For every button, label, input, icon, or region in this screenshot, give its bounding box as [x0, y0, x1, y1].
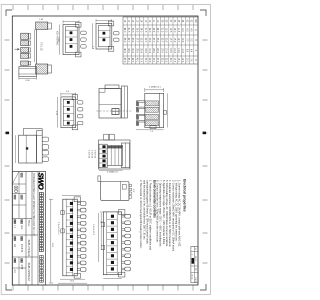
- svg-text:43.9: 43.9: [127, 48, 129, 53]
- svg-text:DONGGUAN SWO ELECTRONICS TECHN: DONGGUAN SWO ELECTRONICS TECHNOLOGY CO.,…: [32, 173, 35, 236]
- svg-text:Electrical properties: Electrical properties: [182, 179, 186, 212]
- wire line from H1 to H2: [36, 30, 38, 65]
- svg-text:32.6: 32.6: [148, 58, 150, 63]
- V-D(4pin) dimension lines: [61, 93, 76, 95]
- svg-text:26.5: 26.5: [152, 28, 154, 33]
- svg-text:35.1: 35.1: [144, 58, 146, 63]
- margin tick marks left edge: [192, 5, 194, 10]
- section view 2: outer outline: [99, 140, 131, 169]
- svg-text:2. The material UL 94V-0 rated: 2. The material UL 94V-0 rated nylon 66 …: [139, 180, 142, 249]
- svg-text:XHB: XHB: [20, 265, 22, 270]
- svg-text:0.8±0.05: 0.8±0.05: [93, 150, 95, 159]
- svg-text:15.2: 15.2: [173, 38, 175, 43]
- CONN2: end ears: [119, 210, 125, 215]
- centering arrows on margins: [203, 132, 206, 135]
- svg-text:42.6: 42.6: [131, 58, 133, 63]
- connector front view V-B(3pin): body: [63, 25, 79, 55]
- svg-text:40.1: 40.1: [135, 58, 137, 63]
- V-C(2pin) dimension lines: [96, 19, 112, 21]
- connector front view V-C(2pin): body: [96, 23, 112, 49]
- section view bottom boss: [150, 126, 156, 129]
- V-C(2pin) solder stubs: [114, 32, 120, 35]
- dimension table: [123, 17, 198, 64]
- svg-text:1.6±0.05: 1.6±0.05: [90, 150, 92, 159]
- svg-text:22.6: 22.6: [165, 58, 167, 63]
- CONN2: inner walls: [116, 212, 118, 275]
- vertical-entry connector: left step: [23, 129, 42, 136]
- svg-text:28.9: 28.9: [152, 48, 154, 53]
- dim line right of housing: [19, 78, 37, 80]
- svg-text:37.7: 37.7: [135, 38, 137, 43]
- svg-text:17.6: 17.6: [173, 58, 175, 63]
- svg-text:18.9: 18.9: [169, 48, 171, 53]
- drawing frame border: [12, 16, 198, 285]
- section view top dim line: [166, 93, 168, 127]
- CONN1: latch bump: [61, 229, 64, 233]
- title block columns: [12, 217, 32, 219]
- V-B(3pin) solder stubs: [81, 31, 87, 34]
- svg-text:36.5: 36.5: [135, 28, 137, 33]
- svg-text:42.7: 42.7: [127, 38, 129, 43]
- svg-text:22.7: 22.7: [160, 38, 162, 43]
- svg-text:2.5×10=25.0: 2.5×10=25.0: [57, 222, 60, 235]
- housing side view: body outline: [99, 89, 121, 119]
- svg-text:DESC: DESC: [194, 256, 196, 262]
- section view 2: dark insert strip: [108, 146, 123, 148]
- svg-text:46.4: 46.4: [123, 48, 125, 53]
- rotated landscape sheet: [1, 5, 210, 295]
- svg-text:XHB-2.54mm: XHB-2.54mm: [27, 240, 31, 257]
- company name CJK: [39, 193, 43, 197]
- svg-text:10.1: 10.1: [185, 58, 187, 63]
- svg-text:29.0: 29.0: [148, 28, 150, 33]
- svg-text:21.4: 21.4: [165, 48, 167, 53]
- CONN2 right dim: [103, 277, 121, 279]
- svg-text:17.7: 17.7: [169, 38, 171, 43]
- svg-text:13.9: 13.9: [177, 48, 179, 53]
- title block rows: [37, 172, 39, 286]
- vertical-entry connector: center pin dot: [26, 147, 28, 149]
- svg-text:20.1: 20.1: [169, 58, 171, 63]
- svg-text:21.5: 21.5: [160, 28, 162, 33]
- arrow pointing to terminal 3: [15, 48, 20, 50]
- diagonal cell: [12, 172, 19, 185]
- svg-text:12.7: 12.7: [177, 38, 179, 43]
- section view 2: center block: [107, 145, 122, 165]
- CONN1 left dim: [62, 194, 81, 196]
- svg-text:41.5: 41.5: [127, 28, 129, 33]
- svg-text:26.4: 26.4: [156, 48, 158, 53]
- section view top rail: [158, 93, 160, 127]
- svg-text:Environmental contrdls: Environmental contrdls: [152, 180, 156, 218]
- svg-text:12.6: 12.6: [181, 58, 183, 63]
- section view 2: dim right: [99, 169, 123, 171]
- housing side view: centerline: [96, 110, 132, 112]
- revision table: [191, 247, 198, 283]
- svg-text:31.5: 31.5: [144, 28, 146, 33]
- svg-text:2018.06: 2018.06: [20, 244, 22, 253]
- svg-text:33.9: 33.9: [144, 48, 146, 53]
- title block outline: [12, 172, 45, 286]
- vertical-entry connector: inner line: [25, 135, 27, 163]
- svg-text:44.0: 44.0: [123, 28, 125, 33]
- V-C(2pin) ears: [108, 21, 114, 26]
- svg-text:35.2: 35.2: [140, 38, 142, 43]
- V-D(4pin) solder stubs: [77, 101, 83, 104]
- housing side view: step notch: [104, 89, 106, 93]
- V-B(3pin) inner cavity: [65, 27, 77, 53]
- CONN2: contact pins: [111, 215, 114, 218]
- section view hatched contact bands: [145, 101, 158, 106]
- svg-text:47.6: 47.6: [123, 58, 125, 63]
- corner trim marks: [200, 10, 206, 16]
- svg-text:45.2: 45.2: [123, 38, 125, 43]
- svg-text:39.0: 39.0: [131, 28, 133, 33]
- housing rear view below H2: [19, 67, 37, 77]
- CONN2: latch bump: [101, 223, 104, 227]
- section view body: [145, 93, 164, 127]
- svg-text:11.4: 11.4: [181, 48, 183, 53]
- svg-text:8.9MAX±0.1: 8.9MAX±0.1: [107, 170, 119, 173]
- svg-text:P.D.1.25: P.D.1.25: [40, 42, 42, 51]
- V-D(4pin) contact pins: [67, 101, 70, 104]
- housing side view: contact window: [112, 109, 119, 115]
- header top view: inner line: [120, 182, 122, 201]
- drawing number: [21, 259, 23, 261]
- V-D(4pin) inner cavity: [63, 99, 74, 125]
- CONN1: contact pins: [70, 202, 73, 205]
- CONN1: inner walls: [72, 199, 74, 276]
- svg-text:24.0: 24.0: [156, 28, 158, 33]
- svg-text:11.5: 11.5: [177, 28, 179, 33]
- section view mating tab right: [164, 111, 167, 115]
- section view 2: bottom cell row: [99, 144, 107, 168]
- CONN1: end ears: [74, 197, 80, 202]
- margin tick marks bottom edge: [5, 39, 10, 41]
- svg-text:DATE: DATE: [194, 278, 197, 284]
- housing side view: retainer strip: [122, 86, 128, 118]
- unit cells: [21, 220, 23, 222]
- housing side view: mating lug tab: [105, 85, 119, 89]
- svg-text:18.6.4: 18.6.4: [191, 274, 193, 279]
- svg-text:2.5×8=20.0: 2.5×8=20.0: [92, 224, 95, 236]
- svg-text:32.7: 32.7: [144, 38, 146, 43]
- paper sheet edge: [1, 5, 210, 295]
- svg-text:16.5: 16.5: [169, 28, 171, 33]
- svg-text:SWO: SWO: [37, 173, 46, 190]
- svg-text:36.4: 36.4: [140, 48, 142, 53]
- svg-text:37.6: 37.6: [140, 58, 142, 63]
- CONN2: body: [103, 212, 121, 275]
- svg-text:27.7: 27.7: [152, 38, 154, 43]
- svg-text:20.2: 20.2: [165, 38, 167, 43]
- svg-text:16.4: 16.4: [173, 48, 175, 53]
- svg-text:27.6: 27.6: [156, 58, 158, 63]
- approval sub-table: [12, 183, 26, 185]
- svg-text:34.0: 34.0: [140, 28, 142, 33]
- CONN1: body: [63, 199, 78, 276]
- svg-text:14.0: 14.0: [173, 28, 175, 33]
- margin tick marks right edge: [192, 286, 194, 291]
- terminal side view (hatched) H2: [36, 64, 48, 74]
- svg-text:40.2: 40.2: [131, 38, 133, 43]
- margin tick marks top edge: [203, 39, 208, 41]
- svg-text:mm: mm: [20, 225, 22, 229]
- vertical-entry connector: stubs: [42, 137, 48, 142]
- svg-text:30.1: 30.1: [152, 58, 154, 63]
- revision black marker cell: [192, 258, 195, 264]
- crimp terminals row (5 hatched): [21, 33, 29, 39]
- svg-text:25.1: 25.1: [160, 58, 162, 63]
- svg-text:23.9: 23.9: [160, 48, 162, 53]
- svg-text:45.1: 45.1: [127, 58, 129, 63]
- section view 2: top strip: [121, 143, 129, 168]
- mating header top view: [101, 182, 129, 201]
- section view dim lines: [145, 89, 164, 91]
- svg-text:10.2: 10.2: [181, 38, 183, 43]
- V-C(2pin) contact pins: [103, 32, 106, 35]
- section view 2: left tabs: [110, 134, 115, 140]
- CONN2: latch bump: [101, 246, 104, 250]
- CONN2: solder stubs: [122, 214, 125, 216]
- housing side view: inner wall: [99, 104, 121, 106]
- vertical-entry connector: dim below: [15, 135, 17, 163]
- terminal side view (hatched) H1: [36, 22, 48, 30]
- V-D(4pin) ears: [72, 95, 78, 100]
- V-C(2pin) inner cavity: [98, 26, 110, 47]
- CONN2/CONN1 intermediate dims: [98, 213, 100, 262]
- vertical-entry connector: top strip: [37, 131, 43, 163]
- connector front view V-D(4pin): body: [61, 97, 76, 128]
- svg-text:2.0±0.05: 2.0±0.05: [87, 150, 89, 159]
- product series CJK: [40, 256, 44, 260]
- svg-text:19.0: 19.0: [165, 28, 167, 33]
- svg-text:TITLE:: TITLE:: [27, 220, 30, 228]
- V-B(3pin) contact pins: [70, 31, 73, 34]
- svg-text:41.4: 41.4: [131, 48, 133, 53]
- svg-text:NO: NO: [194, 19, 196, 23]
- vertical-entry connector view: body: [19, 135, 37, 163]
- V-B(3pin) ears: [76, 22, 82, 27]
- header top view: boss stub: [98, 176, 101, 182]
- svg-text:30.2: 30.2: [148, 38, 150, 43]
- CONN1: solder stubs: [77, 202, 80, 204]
- svg-text:5.4MAX±0.1: 5.4MAX±0.1: [149, 86, 162, 89]
- CONN1 dimension under body: [60, 278, 85, 280]
- header top view: teeth: [129, 184, 132, 186]
- svg-text:31.4: 31.4: [148, 48, 150, 53]
- CONN1 overall length dim: [50, 199, 52, 283]
- header top view: notch: [122, 184, 126, 189]
- third angle projection symbol: [14, 186, 17, 189]
- svg-text:25.2: 25.2: [156, 38, 158, 43]
- svg-text:15.1: 15.1: [177, 58, 179, 63]
- svg-text:XHB-10YW-02: XHB-10YW-02: [27, 263, 31, 282]
- svg-text:38.9: 38.9: [135, 48, 137, 53]
- section view gull-wing pins: [136, 101, 144, 106]
- CONN2 left-end dim: [100, 213, 102, 250]
- CONN1: latch bump: [61, 211, 64, 215]
- V-B(3pin) dimension lines: [63, 21, 79, 23]
